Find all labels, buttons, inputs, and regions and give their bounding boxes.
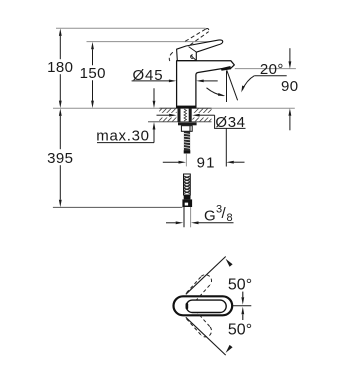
faucet body and spout outline (177, 61, 235, 108)
svg-text:395: 395 (47, 150, 73, 167)
angle dimension stem lower (242, 314, 244, 320)
flexible braided supply hose (184, 174, 191, 195)
arrowhead 150 bottom (91, 101, 94, 109)
temperature ring detail (191, 55, 193, 59)
top view axis line (233, 305, 252, 307)
dimension line 150 (92, 49, 94, 65)
mounting nut (181, 126, 192, 132)
arrowhead 90 top (289, 61, 292, 69)
arrowhead diameter 34 left (169, 114, 177, 117)
arrowhead 90 bottom (289, 108, 292, 116)
diameter 34 dimension right tail (200, 114, 215, 116)
dimension line 91 left (163, 161, 179, 163)
20 degree label underline (254, 75, 287, 77)
hose end reference line (53, 206, 183, 208)
extension line for 150 (handle rest height) (87, 41, 221, 43)
max.30 upper arrow stem (153, 88, 155, 101)
svg-text:Ø34: Ø34 (215, 114, 245, 131)
threaded rod end cap (184, 150, 191, 153)
arrowhead angle lower at axis (241, 307, 244, 315)
diameter 34 label leader and underline (215, 115, 246, 128)
connection tube right edge (190, 207, 192, 227)
G3/8 dimension right tail and underline (199, 222, 234, 224)
arrowhead diameter 45 left (169, 80, 177, 83)
countertop section bottom edge (148, 121, 212, 123)
arrowhead 20 degree right arc (241, 86, 245, 93)
swing limit line lower 50 degree (186, 317, 226, 355)
dimension 90 upper stem (289, 48, 291, 61)
countertop hatching right of hole (185, 108, 222, 122)
arrowhead diameter 45 right (196, 80, 204, 83)
spout outlet reference line (235, 68, 296, 70)
arrowhead 395 bottom (59, 200, 62, 208)
lever handle (rest position) (177, 40, 223, 61)
svg-text:180: 180 (47, 59, 73, 76)
handle front skirt line (191, 55, 196, 60)
countertop surface reference line (53, 107, 295, 109)
dimension line 91 right (234, 161, 245, 163)
20 degree arc right (242, 76, 254, 90)
mounting washer (178, 122, 197, 125)
arrowhead G3/8 right (191, 221, 199, 224)
svg-text:150: 150 (80, 65, 106, 82)
dimension 90 lower stem (289, 116, 291, 131)
diameter 45 leader right (204, 80, 218, 82)
extension line for 180 (handle raised height) (56, 27, 206, 29)
spray direction line 20 degree (227, 70, 238, 100)
arrowhead 180 bottom (59, 101, 62, 109)
svg-text:8: 8 (227, 212, 234, 224)
arrowhead 395 top (59, 108, 62, 116)
dimension line 395 (59, 116, 61, 149)
arrowhead 20 degree left arc (218, 93, 225, 96)
svg-text:G: G (204, 208, 216, 225)
arrowhead G3/8 left (176, 221, 184, 224)
max.30 label underline (97, 142, 154, 144)
svg-text:Ø45: Ø45 (132, 67, 163, 84)
arrowhead at lower swing line (226, 345, 233, 353)
arrowhead max.30 top (153, 101, 156, 109)
phantom handle swung down 50 degrees (dashed) (187, 311, 212, 337)
G3/8 dimension left tail (166, 222, 176, 224)
spout outlet extension line (225, 128, 227, 166)
arrowhead 91 right (226, 161, 234, 164)
connection tube left edge (183, 207, 185, 227)
threaded shank left wall (178, 108, 181, 121)
svg-text:50°: 50° (228, 276, 252, 293)
top view faucet body outline (174, 296, 233, 315)
arrowhead max.30 bottom (153, 122, 156, 130)
aerator (mousseur) (221, 66, 231, 71)
threaded rod (184, 131, 190, 150)
dimension line 180 (59, 36, 61, 59)
max.30 lower arrow stem (153, 129, 155, 142)
arrowhead at upper swing line (226, 259, 233, 267)
diameter 34 dimension left tail (157, 114, 170, 116)
top view handle front tick (186, 303, 189, 309)
svg-text:90: 90 (281, 78, 299, 95)
arrowhead diameter 34 right (192, 114, 200, 117)
phantom handle swung up 50 degrees (dashed) (187, 275, 212, 301)
svg-text:20°: 20° (260, 61, 284, 78)
handle pivot joint line (189, 47, 197, 52)
svg-text:50°: 50° (228, 321, 252, 338)
hose connection nut G3/8 (184, 195, 191, 199)
centerline between rod and hose (185, 154, 187, 167)
clearance band for diameter 34 dimension (159, 113, 177, 118)
arrowhead 91 left (179, 161, 187, 164)
base gasket (176, 106, 196, 108)
top view handle outline (186, 300, 226, 312)
arrowhead 150 top (91, 42, 94, 50)
svg-text:91: 91 (197, 154, 216, 171)
lever handle raised (dashed phantom) (169, 29, 209, 61)
arrowhead 180 top (59, 28, 62, 36)
shank thread lines (184, 109, 187, 121)
swing limit line upper 50 degree (186, 257, 226, 295)
countertop section top edge (160, 107, 212, 109)
20 degree arc left (207, 88, 224, 96)
arrowhead angle upper at axis (241, 297, 244, 305)
diameter 45 leader left (132, 80, 170, 82)
threaded shank right wall (189, 108, 192, 121)
angle dimension stem upper (242, 292, 244, 298)
countertop hatching left of hole (148, 108, 185, 122)
spray vertical reference line (226, 71, 228, 103)
svg-text:max.30: max.30 (96, 127, 149, 144)
